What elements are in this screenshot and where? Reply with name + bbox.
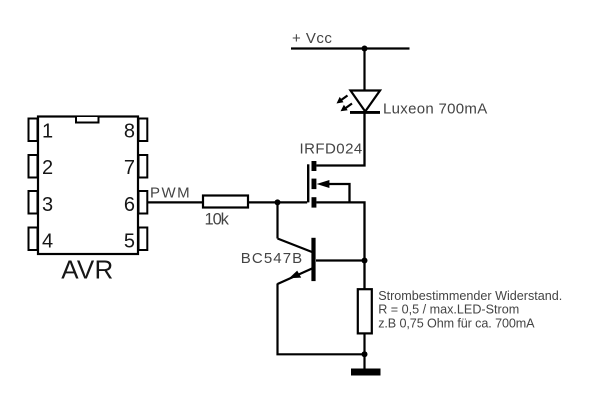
svg-text:2: 2 <box>42 157 53 179</box>
IC notch mark <box>76 117 99 123</box>
svg-text:7: 7 <box>124 157 135 179</box>
svg-text:PWM: PWM <box>150 184 191 201</box>
pin stub 6 <box>139 191 148 214</box>
pin stub 5 <box>139 228 148 251</box>
BC547B emitter diagonal <box>278 269 313 285</box>
pin stub 8 <box>139 119 148 142</box>
MOSFET drain bar <box>312 161 317 171</box>
wire gate node to BC547B collector <box>276 202 278 238</box>
resistor R2 sense <box>358 289 372 333</box>
pin stub 3 <box>29 191 38 214</box>
power rail +Vcc <box>291 47 410 49</box>
wire LED cathode to MOSFET drain <box>316 113 364 166</box>
pin stub 4 <box>29 228 38 251</box>
pin stub 2 <box>29 155 38 178</box>
pin stub 1 <box>29 119 38 142</box>
ground symbol <box>351 369 381 376</box>
MOSFET gate line <box>307 164 309 202</box>
wire body to source <box>327 184 350 202</box>
svg-text:R = 0,5 / max.LED-Strom: R = 0,5 / max.LED-Strom <box>378 302 519 316</box>
wire pin 6 to resistor R1 <box>147 201 203 203</box>
junction dot ground node <box>362 351 368 357</box>
svg-text:IRFD024: IRFD024 <box>300 140 363 157</box>
wire MOSFET source to sense resistor <box>316 202 364 289</box>
wire R1 to MOSFET gate <box>248 201 307 203</box>
MOSFET source bar <box>312 197 317 207</box>
junction dot source / BC547B base node <box>362 258 368 264</box>
IC U1 AVR body <box>38 117 138 255</box>
LED light emission arrow upper <box>337 96 348 104</box>
svg-text:AVR: AVR <box>61 255 113 285</box>
svg-text:8: 8 <box>124 121 135 143</box>
svg-text:4: 4 <box>42 230 53 252</box>
pin stub 7 <box>139 155 148 178</box>
resistor R1 10k <box>203 196 248 208</box>
MOSFET body bar <box>312 179 317 190</box>
wire Vcc rail to LED anode <box>363 49 365 92</box>
svg-text:3: 3 <box>42 194 53 216</box>
MOSFET U2 IRFD024 <box>308 161 349 208</box>
BC547B base bar <box>311 238 315 281</box>
svg-text:BC547B: BC547B <box>241 250 303 267</box>
junction dot gate node <box>275 199 281 205</box>
transistor Q1 BC547B <box>278 238 316 284</box>
MOSFET body arrow <box>317 180 330 188</box>
svg-text:Luxeon 700mA: Luxeon 700mA <box>383 100 488 117</box>
svg-text:5: 5 <box>124 230 135 252</box>
wire BC547B base to source node <box>316 259 365 261</box>
LED light emission arrow lower <box>341 104 353 112</box>
svg-text:+ Vcc: + Vcc <box>292 30 332 47</box>
wire R2 bottom to ground node <box>363 334 365 369</box>
svg-text:6: 6 <box>124 194 135 216</box>
svg-text:z.B 0,75 Ohm für ca. 700mA: z.B 0,75 Ohm für ca. 700mA <box>378 317 535 331</box>
BC547B collector diagonal <box>278 239 313 253</box>
svg-text:10k: 10k <box>205 211 230 229</box>
LED D1 Luxeon (triangle + cathode bar) <box>350 91 380 113</box>
svg-text:Strombestimmender Widerstand.: Strombestimmender Widerstand. <box>378 289 562 303</box>
BC547B emitter arrowhead <box>289 271 301 279</box>
wire BC547B emitter to ground node <box>278 284 365 355</box>
junction dot Vcc rail / LED anode <box>362 46 368 52</box>
svg-text:1: 1 <box>42 121 53 143</box>
